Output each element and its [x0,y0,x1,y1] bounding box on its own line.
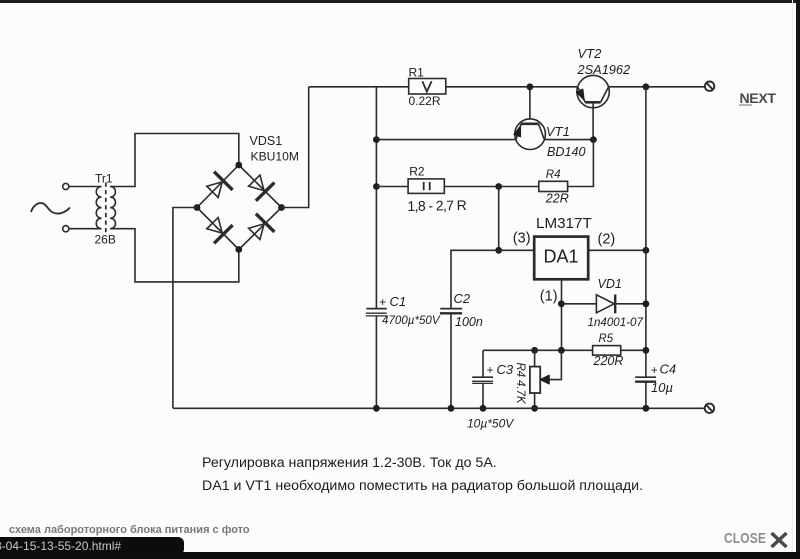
output terminal minus [705,404,714,413]
svg-text:VT1: VT1 [546,124,570,139]
svg-text:VT2: VT2 [578,46,603,61]
capacitor C4 [635,377,656,382]
right black bar [796,0,800,559]
svg-text:R5: R5 [599,333,614,345]
wire: VT1 collector to base node [544,139,593,141]
NEXT link [740,90,776,106]
faint right inner line [792,0,793,559]
node: pin3 junction [495,247,502,254]
svg-text:(2): (2) [598,231,616,247]
svg-text:4700µ*50V: 4700µ*50V [382,314,441,327]
wire: VT1 base line [376,139,516,141]
wire: secondary bottom to bridge [110,229,239,282]
wire: bottom rail [173,407,705,409]
svg-text:10µ: 10µ [651,380,673,395]
diode D-bottomleft of VDS1 [203,214,232,243]
wire: tap down to pin3 [498,187,500,251]
svg-text:+: + [379,295,386,309]
node: VD1-output junction [643,300,650,307]
svg-text:BD140: BD140 [547,145,586,159]
node: bridge bottom [235,246,242,253]
regulator DA1 LM317T [534,237,588,280]
wire: output vertical lower [645,382,647,409]
node: R5-output junction [643,347,650,354]
svg-text:2SA1962: 2SA1962 [577,62,631,77]
wire: top rail right segment [609,86,705,88]
svg-text:(1): (1) [540,289,558,305]
node: pin2-output junction [643,247,650,254]
svg-text:DA1: DA1 [543,247,578,267]
grey status title [9,524,250,536]
wire: DA1 pin2 to output [588,249,646,251]
capacitor C3 [472,350,493,408]
node: VT1-VT2 base junction [590,136,597,143]
CLOSE button [724,531,766,547]
wire: R4 right lead up [568,140,594,187]
svg-text:VDS1: VDS1 [250,134,283,148]
note line 2 [202,478,643,494]
svg-text:R4: R4 [514,363,526,378]
capacitor C2 [440,309,462,409]
svg-text:+: + [487,365,494,377]
node: pin1-VD1 junction [558,300,565,307]
svg-text:KBU10M: KBU10M [251,149,299,163]
svg-text:100n: 100n [455,315,483,329]
wire: output vertical upper [645,87,647,377]
svg-text:0.22R: 0.22R [409,94,441,108]
node: bridge right [278,204,285,211]
potentiometer R4 4.7K [530,350,562,408]
node: pot top junction [531,347,538,354]
node: pin1-R5 junction [558,347,565,354]
wire: VT1 top lead [529,87,531,119]
node: bridge top [235,162,242,169]
svg-text:C1: C1 [390,294,407,309]
diode D-topleft of VDS1 [203,172,232,201]
node: x376 VT1-base junction [373,136,380,143]
wire: VD1 anode lead [561,303,596,305]
diode VD1 [596,295,614,313]
AC input terminal bottom [63,226,69,232]
transistor VT2 [576,75,609,107]
NEXT partial underline [739,104,752,106]
wire: VT2 base lead down [592,102,594,139]
resistor R1 [409,79,446,95]
black url tooltip [0,537,184,555]
transformer Tr1 primary winding [96,187,101,229]
wire: adj line C3-pot-R5 [483,349,593,351]
svg-text:C3: C3 [497,362,514,377]
wire: primary top lead [69,186,102,188]
svg-text:R2: R2 [409,165,425,179]
svg-text:LM317T: LM317T [536,215,592,232]
wire: top rail middle segment [446,86,578,88]
svg-text:C4: C4 [660,362,677,377]
svg-text:10µ*50V: 10µ*50V [467,417,514,431]
node: C2 bottom [448,405,455,412]
node: rail-VT1 junction [527,83,534,90]
svg-text:22R: 22R [545,192,569,206]
svg-text:220R: 220R [593,354,624,368]
transformer Tr1 secondary winding [110,187,115,229]
R1 power mark V [422,81,431,91]
svg-text:R1: R1 [409,65,425,79]
AC source squiggle [31,203,70,214]
svg-text:1n4001-07: 1n4001-07 [588,316,644,329]
VD1 cathode bar [614,295,616,314]
wire: pin3 to DA1 [499,249,535,251]
wire: VD1 cathode lead [615,303,646,305]
node: C1 bottom [373,405,380,412]
wire: R2 left lead [376,186,408,188]
wire: secondary top to bridge [110,134,239,187]
node: C3 bottom [480,405,487,412]
transistor VT1 [514,119,545,150]
svg-text:(3): (3) [513,230,531,246]
wire: R5 right lead [621,349,646,351]
svg-text:1,8 - 2,7 R: 1,8 - 2,7 R [407,197,467,214]
wire: primary bottom lead [69,228,102,230]
wire: raw DC vertical x376 [375,87,377,308]
diode D-topright of VDS1 [245,172,274,201]
resistor R2 [408,179,444,194]
output terminal plus [705,82,714,91]
svg-text:Tr1: Tr1 [95,171,113,185]
diode D-bottomright of VDS1 [245,214,274,243]
wire: bridge plus up to top rail [282,87,309,208]
node: rail-output junction [643,83,650,90]
svg-text:26В: 26В [95,233,116,247]
svg-text:R4: R4 [546,169,561,181]
capacitor C1 [366,309,387,409]
R2 power mark II [424,182,430,190]
node: pot bottom junction [531,405,538,412]
wire: bridge minus to bottom rail [173,208,197,409]
svg-text:+: + [651,365,658,377]
wire: R2 to R4 [444,186,539,188]
wire: top rail left segment [309,86,409,88]
bridge VDS1 diamond wires [197,165,282,250]
bottom black bar [0,552,800,559]
svg-text:4.7K: 4.7K [514,380,526,405]
transformer Tr1 core [105,183,107,233]
resistor R4 22R [539,181,568,191]
AC input terminal top [63,183,69,189]
top black bar [0,0,800,3]
node: C4 bottom [643,405,650,412]
wire: C2 branch [451,250,499,308]
node: x376 R2 junction [373,183,380,190]
CLOSE X icon [769,531,789,549]
node: bridge left [194,204,201,211]
svg-text:C2: C2 [454,291,471,306]
node: R2-R4 tap [495,183,502,190]
wire: DA1 pin1 down [561,279,563,350]
svg-text:VD1: VD1 [598,277,622,291]
resistor R5 [593,346,621,356]
note line 1 [202,455,497,471]
